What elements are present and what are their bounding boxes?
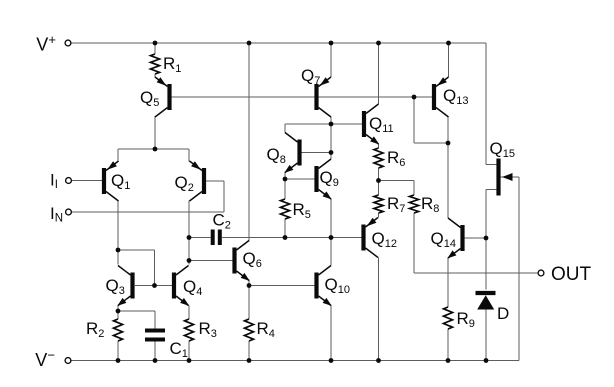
transistor Q15	[499, 159, 513, 196]
wire Q7 collector down	[330, 117, 332, 124]
wire node Q7 collector to Q9 collector	[330, 124, 332, 159]
wire V+ rail	[71, 42, 486, 44]
wire Q6 base	[189, 260, 233, 262]
wire node to R8 top	[379, 181, 415, 196]
wire input IN	[72, 211, 224, 213]
resistor R1	[151, 54, 160, 74]
resistor R8	[410, 195, 419, 213]
junction V- rail / diode D	[484, 358, 489, 363]
svg-text:OUT: OUT	[551, 264, 592, 285]
transistor Q9	[317, 159, 332, 199]
transistor Q4	[174, 266, 189, 306]
junction V- rail / R3	[187, 358, 192, 363]
wire Q14 base to node	[465, 237, 486, 239]
wire Q14 emitter to R9	[447, 258, 449, 307]
junction V- rail / R4	[247, 358, 252, 363]
wire C2 right to Q12 base	[222, 237, 362, 239]
junction V+ rail / Q7 emitter	[329, 41, 334, 46]
transistor Q8	[284, 133, 299, 173]
wire Q3 emitter node to C1 top	[118, 311, 155, 329]
wire V- rail	[71, 360, 519, 362]
wire Q3 collector-base tie	[118, 250, 155, 286]
junction Q6 base / Q4 collector	[187, 258, 192, 263]
transistor Q10	[317, 266, 332, 306]
wire Q11 emitter to R6	[378, 144, 380, 148]
terminal input IN	[66, 209, 72, 215]
resistor R7	[374, 195, 383, 213]
wire Q6 emitter to Q10 base	[249, 285, 315, 287]
wire Q3-Q4 common base	[135, 285, 172, 287]
wire R6 to node	[378, 168, 380, 181]
wire Q8 collector loop	[285, 124, 362, 133]
junction C2 left / Q2-Q4 collectors	[187, 235, 192, 240]
transistor Q13	[434, 77, 449, 117]
wire Q1 collector to Q3 collector	[117, 201, 119, 265]
wire input II to Q1 base	[72, 180, 102, 182]
junction Q6 emitter / Q10 base / R4	[247, 283, 252, 288]
resistor R6	[374, 148, 383, 168]
wire Q10 emitter down	[330, 306, 332, 361]
wire Q5 base to Q7 base to Q13 base (bias line)	[171, 96, 432, 98]
resistor R2	[114, 319, 123, 341]
wire Q2 collector to Q4 collector	[188, 201, 190, 265]
terminal input II	[66, 178, 72, 184]
junction Q8 collector / Q11 base	[329, 122, 334, 127]
wire Q5 collector to diff pair tail	[154, 116, 156, 149]
wire R7 to Q12 emitter	[378, 213, 380, 218]
junction V+ rail / Q13 emitter	[446, 41, 451, 46]
wire node to R7	[378, 181, 380, 196]
wire V+ rail drop to Q15 collector	[486, 43, 497, 165]
wire Q11 collector up	[378, 43, 380, 104]
wire diode D to V- rail	[485, 309, 487, 361]
wire Q4 emitter to R3	[188, 306, 190, 320]
wire Q15 base arm	[501, 176, 519, 178]
junction V- rail / Q12 collector	[376, 358, 381, 363]
junction Q1 collector / Q3 tie	[116, 248, 121, 253]
junction diff pair tail	[153, 147, 158, 152]
wire Q2 base loop	[206, 181, 224, 212]
wire R2 bottom lead	[117, 341, 119, 361]
junction V+ rail / Q6 collector column	[247, 41, 252, 46]
junction Q3 emitter / C1	[116, 309, 121, 314]
wire Q6 emitter node	[248, 280, 250, 286]
transistor Q3	[117, 266, 132, 306]
wire Q10 collector up	[330, 238, 332, 266]
wire R4 bottom lead	[248, 341, 250, 361]
transistor Q2	[190, 161, 205, 201]
junction Q3-Q4 base / tie	[152, 283, 157, 288]
junction V- rail / Q10 emitter	[329, 358, 334, 363]
wire C2 left lead	[189, 237, 211, 239]
wire R3 bottom lead	[188, 341, 190, 361]
resistor R4	[245, 319, 254, 341]
capacitor C2	[213, 230, 220, 246]
wire Q9 base	[285, 178, 315, 180]
wire Q13 collector to Q14 collector	[447, 117, 449, 218]
wire R9 bottom lead	[447, 329, 449, 361]
wire Q1 emitter up	[117, 149, 119, 162]
junction V+ rail / R1	[153, 41, 158, 46]
junction Q13 tie / collector	[446, 141, 451, 146]
resistor R3	[185, 319, 194, 341]
junction Q14 base / Q15 line	[484, 236, 489, 241]
wire Q15 arm down to V- rail corner	[518, 177, 520, 361]
transistor Q12	[364, 218, 379, 258]
svg-text:D: D	[497, 304, 509, 323]
resistor R5	[281, 199, 290, 219]
diode D	[476, 293, 496, 310]
wire Q3 emitter to R2	[117, 306, 119, 320]
junction Q9 emitter / Q10 collector	[329, 235, 334, 240]
transistor Q14	[447, 218, 462, 258]
wire Q9 emitter down	[330, 199, 332, 238]
wire R1 top lead	[154, 43, 156, 54]
wire Q12 collector down	[378, 258, 380, 361]
capacitor C1	[145, 331, 165, 340]
terminal V-	[65, 358, 71, 364]
transistor Q11	[364, 104, 379, 144]
wire R5 bottom lead	[284, 219, 286, 238]
junction V- rail / R2	[116, 358, 121, 363]
wire Q2 emitter up	[188, 149, 190, 162]
resistor R9	[444, 307, 453, 329]
wire Q8 base	[302, 152, 331, 154]
wire Q7 emitter up	[330, 43, 332, 77]
junction V+ rail / Q11 collector	[376, 41, 381, 46]
wire Q8 emitter to R5	[284, 173, 286, 200]
junction R6 / R7 / R8 node	[376, 178, 381, 183]
junction V- rail / R9	[446, 358, 451, 363]
wire OUT line	[414, 272, 538, 274]
wire C1 bottom lead	[154, 342, 156, 361]
wire Q13 emitter up	[448, 43, 450, 77]
junction V- rail / C1	[153, 358, 158, 363]
terminal OUT	[538, 270, 544, 276]
wire Q6 collector column	[248, 43, 250, 242]
junction Q8 emitter / Q9 base	[283, 177, 288, 182]
wire Q15 emitter stub down to diode	[486, 190, 497, 290]
transistor Q5	[155, 77, 170, 117]
wire diff pair tail bridge	[118, 148, 189, 150]
terminal V+	[65, 40, 71, 46]
wire R1 to Q5 emitter	[154, 74, 156, 78]
transistor Q7	[317, 77, 332, 117]
wire Q6 emitter to R4	[248, 286, 250, 320]
junction bias line / Q13 base tie	[412, 95, 417, 100]
junction R5 bottom / C2 wire	[283, 235, 288, 240]
wire Q13 base tie	[414, 97, 448, 143]
transistor Q1	[104, 161, 119, 201]
wire R8 to OUT line	[413, 213, 415, 273]
junction Q8 base / Q9 collector	[329, 150, 334, 155]
transistor Q6	[235, 241, 250, 281]
